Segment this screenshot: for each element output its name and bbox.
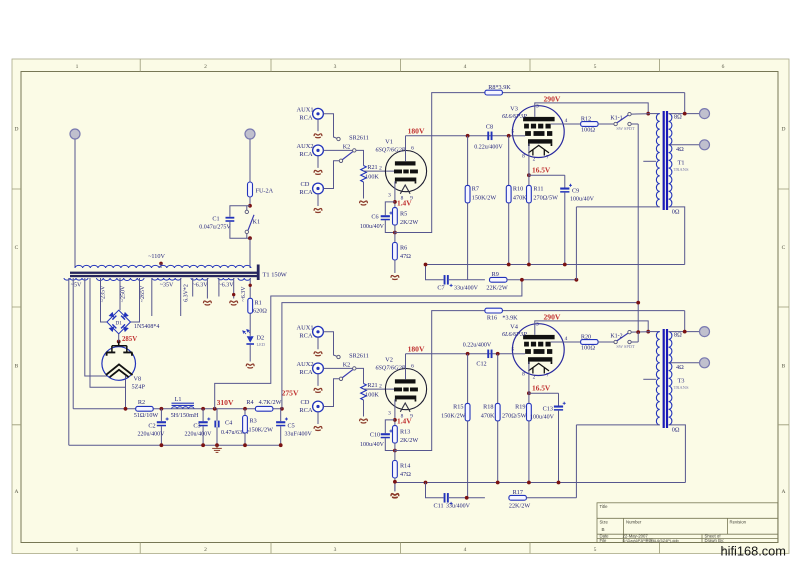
switch K1 <box>246 206 248 210</box>
svg-text:D2: D2 <box>257 335 265 342</box>
svg-text:T1: T1 <box>678 160 685 167</box>
svg-text:150K/2W: 150K/2W <box>249 427 274 434</box>
svg-text:R18: R18 <box>483 404 493 411</box>
wire AUX1 to switch <box>323 114 337 139</box>
svg-text:C9: C9 <box>572 188 579 195</box>
svg-text:R20: R20 <box>581 334 591 341</box>
capacitor C10 <box>385 420 395 433</box>
fuse FU-2A <box>248 182 253 197</box>
resistor R3 <box>244 409 246 416</box>
svg-text:150K/2W: 150K/2W <box>472 195 497 202</box>
speaker terminal <box>700 140 710 150</box>
svg-text:C5: C5 <box>288 422 295 429</box>
node <box>646 112 650 116</box>
svg-text:22K/2W: 22K/2W <box>509 503 530 510</box>
svg-text:~250V: ~250V <box>121 285 127 302</box>
ground <box>314 427 322 431</box>
ground <box>391 276 399 280</box>
wire CD to switch <box>323 379 339 407</box>
wire K1-2 interconnect <box>637 332 639 342</box>
wire plate <box>405 354 407 380</box>
ground <box>360 419 368 423</box>
wire stub <box>643 160 656 162</box>
wire <box>317 412 319 424</box>
svg-text:100u/40V: 100u/40V <box>530 415 555 421</box>
LED D2 <box>247 336 254 342</box>
svg-text:4: 4 <box>464 64 467 70</box>
resistor R13 <box>393 426 398 444</box>
svg-text:16.5V: 16.5V <box>532 383 551 392</box>
svg-text:CD: CD <box>301 181 310 188</box>
svg-text:3: 3 <box>334 547 337 553</box>
wire AUX2 to pole <box>323 149 352 151</box>
svg-text:2: 2 <box>533 375 536 381</box>
switch K1-2 <box>614 340 617 343</box>
capacitor C3 <box>202 409 204 421</box>
title block <box>597 503 778 543</box>
svg-text:6.3V*2: 6.3V*2 <box>184 284 190 302</box>
svg-text:K1-2: K1-2 <box>610 333 622 339</box>
node <box>683 330 687 334</box>
svg-text:R15: R15 <box>453 404 463 411</box>
svg-text:0Ω: 0Ω <box>672 427 680 434</box>
svg-text:180V: 180V <box>408 126 425 135</box>
svg-text:R2: R2 <box>138 399 145 406</box>
svg-text:CD: CD <box>301 399 310 406</box>
svg-text:hifi168.com: hifi168.com <box>721 544 786 559</box>
svg-text:150K/2W: 150K/2W <box>441 413 466 420</box>
resistor R9 <box>449 279 485 281</box>
wire <box>249 278 251 298</box>
wire cathode <box>528 362 530 404</box>
wire <box>317 156 319 168</box>
svg-text:6SQ7/6G2P: 6SQ7/6G2P <box>376 146 406 153</box>
wire primary bottom <box>576 206 659 208</box>
wire <box>218 278 220 297</box>
svg-text:290V: 290V <box>544 94 561 103</box>
ground <box>314 352 322 356</box>
wire cathode <box>394 399 396 425</box>
ground rail <box>395 482 686 484</box>
svg-text:1.4V: 1.4V <box>397 416 412 425</box>
svg-text:6L6/6P3P: 6L6/6P3P <box>502 331 527 338</box>
bridge rectifier D1 <box>107 310 131 334</box>
wire R14 ground drop <box>394 482 396 492</box>
svg-text:C13: C13 <box>543 406 553 413</box>
svg-text:Title: Title <box>600 504 609 509</box>
ground <box>314 134 322 138</box>
capacitor C4 <box>216 409 218 421</box>
svg-text:RCA: RCA <box>299 369 313 376</box>
svg-text:R5: R5 <box>400 211 407 218</box>
resistor R11 <box>527 185 532 203</box>
svg-text:R19: R19 <box>515 404 525 411</box>
svg-text:4Ω: 4Ω <box>676 364 684 371</box>
wire CD to switch <box>323 161 339 189</box>
svg-text:K1: K1 <box>253 219 261 226</box>
inductor L1 <box>172 407 194 409</box>
ground <box>314 170 322 174</box>
svg-text:310V: 310V <box>217 398 234 407</box>
node <box>466 134 470 138</box>
wire <box>74 139 76 268</box>
wire <box>317 374 319 386</box>
svg-text:R14: R14 <box>400 463 410 470</box>
svg-text:~6.3V: ~6.3V <box>192 283 208 289</box>
wire screen <box>551 123 581 125</box>
svg-text:4.7K/2W: 4.7K/2W <box>259 399 282 406</box>
svg-text:C11: C11 <box>433 503 443 510</box>
wire <box>598 341 614 343</box>
svg-text:A: A <box>782 489 786 495</box>
resistor R8 feedback <box>395 93 685 233</box>
wire <box>631 123 638 125</box>
svg-text:Number: Number <box>626 519 642 524</box>
svg-text:180V: 180V <box>408 344 425 353</box>
svg-text:270Ω/5W: 270Ω/5W <box>502 413 527 420</box>
node <box>496 352 500 356</box>
svg-text:7: 7 <box>546 373 549 379</box>
node <box>393 449 397 453</box>
wire 35V taps <box>151 278 153 316</box>
svg-text:2: 2 <box>204 547 207 553</box>
wire plate 290V <box>535 321 648 335</box>
svg-text:R10: R10 <box>513 186 523 193</box>
svg-text:5: 5 <box>512 346 515 352</box>
svg-text:5: 5 <box>512 128 515 134</box>
transformer T3 <box>663 329 665 428</box>
svg-text:C2: C2 <box>148 422 155 429</box>
RCA jack CD <box>313 183 324 194</box>
wire <box>684 311 686 332</box>
svg-text:K2: K2 <box>343 361 351 368</box>
switch K1-1 <box>614 122 617 125</box>
svg-text:4: 4 <box>565 118 568 124</box>
svg-text:33uF/400V: 33uF/400V <box>285 431 313 437</box>
capacitor C6 <box>385 202 395 215</box>
resistor R1 <box>248 298 253 313</box>
svg-text:C12: C12 <box>476 361 486 368</box>
svg-text:R13: R13 <box>400 429 410 436</box>
wire <box>631 341 638 343</box>
svg-text:RCA: RCA <box>299 407 313 414</box>
svg-text:R16: R16 <box>487 314 497 321</box>
svg-text:6: 6 <box>411 146 414 152</box>
svg-text:D: D <box>782 127 786 133</box>
svg-text:~35V: ~35V <box>160 283 174 289</box>
RCA jack AUX1 <box>313 108 324 119</box>
ground <box>314 388 322 392</box>
svg-text:FU-2A: FU-2A <box>256 188 274 195</box>
capacitor C12 <box>487 350 489 359</box>
power terminal P2 <box>245 129 255 139</box>
wire plate line <box>406 353 513 355</box>
wire <box>394 260 396 273</box>
svg-text:B: B <box>15 364 19 370</box>
svg-text:2K/2W: 2K/2W <box>400 219 418 226</box>
svg-text:47Ω: 47Ω <box>400 253 411 260</box>
resistor R18 <box>497 354 499 404</box>
svg-text:D:\Dzq\6P3P单端6L6(5Z4P).ddb: D:\Dzq\6P3P单端6L6(5Z4P).ddb <box>623 538 679 543</box>
svg-text:1N5408*4: 1N5408*4 <box>134 324 159 330</box>
wire AUX2 to pole <box>323 367 352 369</box>
wire <box>230 222 250 238</box>
capacitor C7 <box>426 265 444 280</box>
svg-text:Drawn By:: Drawn By: <box>705 538 725 543</box>
svg-text:33u/400V: 33u/400V <box>446 504 471 510</box>
svg-text:2: 2 <box>379 383 382 389</box>
RCA jack CD <box>313 401 324 412</box>
svg-text:47Ω: 47Ω <box>400 471 411 478</box>
svg-text:2: 2 <box>533 157 536 163</box>
svg-text:3: 3 <box>388 193 391 199</box>
transformer T1 secondaries <box>64 278 88 280</box>
speaker terminal <box>700 327 710 337</box>
wire 4ohm tap <box>669 362 700 364</box>
capacitor C1 <box>226 217 235 219</box>
wire <box>497 421 499 483</box>
resistor R7 <box>467 136 469 186</box>
svg-text:33u/400V: 33u/400V <box>454 286 479 292</box>
wire <box>528 421 530 483</box>
svg-text:R11: R11 <box>533 186 543 193</box>
svg-text:8: 8 <box>522 154 525 160</box>
resistor R4 <box>255 406 273 411</box>
ground <box>204 301 212 305</box>
wire <box>363 400 365 417</box>
svg-text:5H/150mH: 5H/150mH <box>171 412 199 419</box>
ground <box>212 445 222 452</box>
wire cathode <box>528 144 530 186</box>
node <box>393 200 397 204</box>
svg-text:SW SPDT: SW SPDT <box>616 344 635 349</box>
svg-text:1: 1 <box>76 547 79 553</box>
resistor R19 <box>527 403 532 421</box>
resistor R21 <box>361 166 367 183</box>
svg-text:V4: V4 <box>510 324 519 331</box>
capacitor C8 <box>487 132 489 141</box>
ground <box>360 201 368 205</box>
svg-text:R21: R21 <box>367 164 377 171</box>
svg-text:R1: R1 <box>255 300 262 307</box>
svg-text:A: A <box>15 489 19 495</box>
svg-text:8Ω: 8Ω <box>674 332 682 339</box>
svg-text:C1: C1 <box>212 216 219 223</box>
wire grid <box>512 135 525 137</box>
svg-text:8: 8 <box>522 372 525 378</box>
svg-text:2: 2 <box>379 165 382 171</box>
svg-text:V2: V2 <box>385 357 393 364</box>
wire stub <box>643 378 656 380</box>
svg-text:RCA: RCA <box>299 332 313 339</box>
resistor R15 <box>467 354 469 404</box>
svg-text:TRANS: TRANS <box>673 167 689 172</box>
svg-text:Revision: Revision <box>730 519 747 524</box>
speaker terminal <box>700 358 710 368</box>
svg-text:SW SPDT: SW SPDT <box>616 126 635 131</box>
svg-text:File: File <box>600 538 608 543</box>
svg-text:4: 4 <box>464 547 467 553</box>
wire grid <box>364 388 395 390</box>
wire 0ohm tap <box>669 207 685 265</box>
wire pole <box>356 150 363 165</box>
svg-text:B: B <box>782 364 786 370</box>
svg-text:3: 3 <box>536 104 539 110</box>
wire <box>249 313 251 336</box>
svg-text:C8: C8 <box>486 123 493 130</box>
svg-text:6: 6 <box>411 364 414 370</box>
node <box>248 236 252 240</box>
wire <box>363 182 365 199</box>
resistor R20 <box>581 340 599 345</box>
node <box>248 204 252 208</box>
wire screen <box>551 341 581 343</box>
svg-text:T3: T3 <box>678 378 685 385</box>
resistor R17 <box>449 497 485 499</box>
resistor R12 <box>581 122 599 127</box>
wire <box>467 203 469 280</box>
wire cathode <box>125 376 127 409</box>
wire plate 290V <box>535 103 648 117</box>
wire 8ohm tap <box>669 113 700 115</box>
svg-text:R6: R6 <box>400 245 407 252</box>
ground rail <box>69 444 281 446</box>
svg-text:~6.3V: ~6.3V <box>218 283 234 289</box>
svg-text:100u/40V: 100u/40V <box>360 442 385 448</box>
wire 4ohm tap <box>669 144 700 146</box>
B+ rail 310V <box>73 408 282 410</box>
svg-text:0.22u/400V: 0.22u/400V <box>474 145 503 151</box>
svg-text:V3: V3 <box>510 106 518 113</box>
wire <box>249 197 251 206</box>
svg-text:RCA: RCA <box>299 151 313 158</box>
wire <box>631 331 648 333</box>
wire <box>90 278 126 387</box>
resistor R10 <box>508 136 510 186</box>
svg-text:100K: 100K <box>365 392 379 399</box>
svg-text:5: 5 <box>594 547 597 553</box>
node <box>646 330 650 334</box>
wire 8ohm tap <box>669 331 700 333</box>
resistor R5 <box>393 208 398 226</box>
wire 0ohm tap <box>669 425 686 483</box>
svg-text:L1: L1 <box>175 396 182 403</box>
svg-text:5Z4P: 5Z4P <box>132 384 146 391</box>
svg-text:AUX2: AUX2 <box>296 143 313 150</box>
svg-text:3: 3 <box>536 322 539 328</box>
resistor R2 <box>136 406 154 411</box>
svg-text:SR2611: SR2611 <box>349 353 369 360</box>
wire <box>564 193 566 265</box>
svg-text:7: 7 <box>546 155 549 161</box>
svg-text:SR2611: SR2611 <box>349 135 369 142</box>
node <box>393 418 397 422</box>
svg-text:~110V: ~110V <box>148 253 165 260</box>
svg-text:RCA: RCA <box>299 114 313 121</box>
wire K1 interconnect <box>637 124 639 332</box>
svg-text:K2: K2 <box>343 143 351 150</box>
node <box>527 173 531 177</box>
svg-text:B: B <box>602 527 605 532</box>
node <box>466 352 470 356</box>
svg-text:C: C <box>15 245 19 251</box>
wire AUX1 to switch <box>323 332 337 357</box>
svg-text:R12: R12 <box>581 116 591 123</box>
svg-text:5: 5 <box>594 64 597 70</box>
svg-text:R17: R17 <box>513 489 523 496</box>
svg-text:8Ω: 8Ω <box>674 114 682 121</box>
svg-text:R9: R9 <box>492 271 499 278</box>
svg-text:2K/2W: 2K/2W <box>400 437 418 444</box>
switch K2 SR2611 <box>337 355 340 358</box>
wire 6.3V taps <box>192 278 194 297</box>
speaker terminal <box>700 109 710 119</box>
ground <box>391 494 399 498</box>
rectifier tube V8 <box>102 347 136 381</box>
node 285V <box>117 340 121 344</box>
svg-text:620Ω: 620Ω <box>253 308 267 315</box>
transformer T1 core <box>70 272 258 274</box>
svg-text:290V: 290V <box>544 312 561 321</box>
wire <box>249 345 251 362</box>
svg-text:AUX1: AUX1 <box>296 324 313 331</box>
power terminal P1 <box>70 129 80 139</box>
svg-text:~235V: ~235V <box>101 285 107 302</box>
svg-text:1.4V: 1.4V <box>397 198 412 207</box>
wire B+ riser <box>575 207 577 280</box>
resistor R14 <box>394 443 396 460</box>
svg-text:0.047u/275V: 0.047u/275V <box>199 225 231 231</box>
svg-text:C: C <box>782 245 786 251</box>
wire <box>598 123 614 125</box>
svg-text:275V: 275V <box>282 388 299 397</box>
resistor R16 feedback <box>395 311 685 451</box>
capacitor C2 <box>160 409 162 421</box>
svg-text:3: 3 <box>334 64 337 70</box>
node <box>527 391 531 395</box>
wire pole <box>356 368 363 383</box>
svg-text:C3: C3 <box>193 422 200 429</box>
svg-text:470K: 470K <box>481 413 495 420</box>
wire <box>467 421 469 498</box>
svg-text:R3: R3 <box>250 418 257 425</box>
tube V1 <box>385 151 426 192</box>
svg-text:0Ω: 0Ω <box>672 209 680 216</box>
wire <box>631 113 648 115</box>
wire plate <box>405 136 407 162</box>
svg-text:100u/40V: 100u/40V <box>360 224 385 230</box>
wire <box>233 278 235 299</box>
wire <box>118 334 120 347</box>
wire <box>317 119 319 131</box>
wire B+ riser 275V <box>282 303 638 409</box>
svg-text:3: 3 <box>388 411 391 417</box>
tube V4 <box>512 324 564 376</box>
wire <box>317 337 319 349</box>
svg-text:270Ω/5W: 270Ω/5W <box>533 195 558 202</box>
svg-text:AUX1: AUX1 <box>296 106 313 113</box>
ground <box>230 301 238 305</box>
node <box>393 231 397 235</box>
svg-text:100Ω: 100Ω <box>581 127 595 134</box>
wire B+ riser <box>575 425 577 498</box>
wire <box>558 411 560 483</box>
wire primary bottom <box>576 424 659 426</box>
capacitor C11 <box>426 483 444 498</box>
capacitor C13 <box>529 392 559 394</box>
svg-text:4Ω: 4Ω <box>676 146 684 153</box>
ground rail <box>426 264 685 266</box>
